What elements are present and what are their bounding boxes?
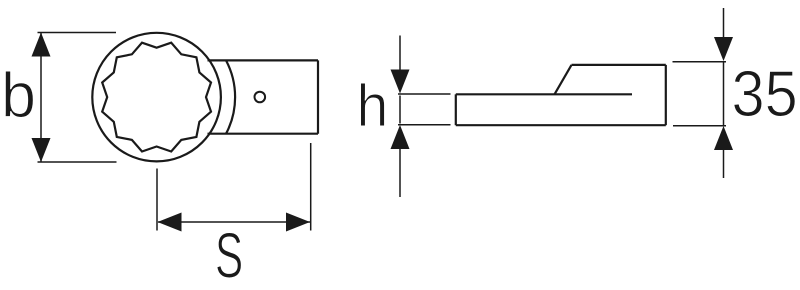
- dim 35 upper leader line: [723, 8, 725, 38]
- dim h line between extension lines: [399, 96, 401, 124]
- dim h top extension line: [398, 93, 451, 95]
- svg-text:b: b: [1, 61, 36, 131]
- svg-text:h: h: [357, 73, 389, 139]
- dim b bottom extension line: [38, 161, 117, 163]
- tang rectangle right edge: [317, 60, 319, 133]
- tang rectangle top edge: [208, 59, 319, 61]
- dim 35 line between extension lines: [723, 63, 725, 126]
- dim 35 top extension line: [673, 61, 727, 63]
- dim h top arrowhead: [391, 70, 410, 94]
- dim S left arrowhead: [158, 213, 182, 232]
- dim S line: [158, 221, 310, 223]
- dim h bottom extension line: [398, 124, 451, 126]
- svg-text:35: 35: [732, 59, 798, 131]
- dim b down arrowhead: [32, 138, 51, 162]
- dim 35 bottom arrowhead: [714, 126, 733, 150]
- dim S right arrowhead: [286, 213, 310, 232]
- side view thick top edge: [572, 64, 666, 66]
- dim 35 lower leader line: [723, 150, 725, 178]
- ring 12-point internal profile: [102, 43, 211, 152]
- dim h upper leader line: [399, 36, 401, 71]
- dim h bottom arrowhead: [391, 125, 410, 149]
- side view bottom edge: [456, 124, 666, 126]
- dim b top extension line: [38, 32, 117, 34]
- side view outline: tang/ring profile: [456, 93, 632, 95]
- tang pin hole: [254, 92, 265, 103]
- dim b vertical line: [40, 33, 42, 162]
- dim S right extension line: [310, 143, 312, 231]
- side view left edge: [455, 94, 457, 125]
- hub fillet arc at tang junction: [226, 60, 235, 133]
- dim b up arrowhead: [32, 33, 51, 57]
- ring outer circle (top view): [92, 33, 221, 162]
- tang rectangle bottom edge: [208, 133, 319, 135]
- dim 35 bottom extension line: [673, 125, 726, 127]
- dim 35 top arrowhead: [714, 37, 733, 61]
- svg-text:S: S: [215, 221, 243, 290]
- dim S left extension line: [156, 169, 158, 231]
- side view diagonal ramp: [555, 65, 572, 94]
- side view right edge: [665, 65, 667, 125]
- dim h lower leader line: [399, 148, 401, 197]
